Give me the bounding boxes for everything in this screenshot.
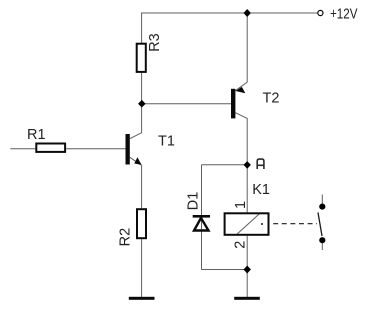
- svg-text:2: 2: [233, 241, 249, 249]
- svg-text:R1: R1: [27, 127, 46, 143]
- svg-text:T2: T2: [263, 90, 280, 106]
- svg-text:T1: T1: [158, 134, 175, 150]
- svg-text:R3: R3: [147, 33, 163, 52]
- svg-text:R2: R2: [117, 228, 133, 247]
- svg-text:+12V: +12V: [330, 6, 358, 22]
- svg-text:D1: D1: [186, 192, 202, 211]
- svg-text:1: 1: [233, 201, 249, 209]
- svg-text:K1: K1: [252, 182, 270, 198]
